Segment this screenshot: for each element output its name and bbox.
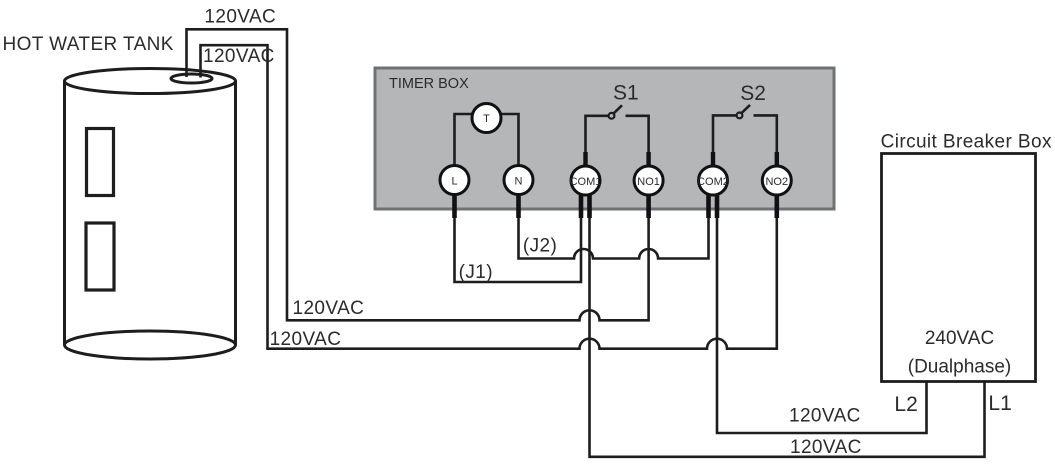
terminal COM2 [697, 166, 729, 195]
timer box label [389, 76, 469, 92]
svg-text:N: N [515, 176, 523, 188]
label L1 [988, 392, 1011, 415]
terminal stub above COM1 [583, 152, 587, 168]
svg-text:L: L [451, 176, 457, 188]
svg-text:NO2: NO2 [765, 176, 788, 188]
heating element upper [87, 129, 114, 196]
terminal stub above NO1 [646, 152, 650, 168]
label Circuit Breaker Box [881, 132, 1052, 153]
svg-text:120VAC: 120VAC [789, 406, 861, 427]
svg-text:COM2: COM2 [697, 176, 729, 188]
label (Dualphase) [908, 357, 1012, 378]
svg-text:120VAC: 120VAC [270, 329, 342, 350]
terminal stub above NO2 [775, 152, 779, 168]
wire jumper J1 L to COM1 [455, 218, 582, 282]
svg-text:Circuit Breaker Box: Circuit Breaker Box [881, 132, 1052, 153]
terminal T [472, 104, 501, 133]
label 120VAC mid lower [270, 329, 342, 350]
wire COM1 to L1 [590, 218, 985, 457]
label S1 [613, 82, 639, 105]
terminal stub above COM2 [711, 152, 715, 168]
label 120VAC top inner [203, 46, 275, 67]
terminal N [504, 166, 533, 195]
terminal stub below NO1 [646, 192, 651, 218]
wire tank terminal to NO1 (120VAC) [187, 29, 649, 320]
svg-text:(Dualphase): (Dualphase) [908, 357, 1012, 378]
wire T bracket right to N [501, 114, 519, 166]
wire COM2 to L2 [717, 218, 927, 433]
switch S2 right wire [754, 115, 777, 166]
label (J2) [523, 236, 557, 257]
switch S1 left wire [586, 116, 609, 166]
label 120VAC top outer [204, 7, 276, 28]
label S2 [740, 82, 766, 105]
svg-text:240VAC: 240VAC [925, 328, 994, 349]
terminal stubs below COM2 [709, 193, 718, 218]
svg-text:120VAC: 120VAC [790, 437, 862, 458]
switch S1 blade [614, 105, 622, 113]
terminal stub below L [452, 192, 457, 218]
terminal NO1 [634, 166, 663, 195]
terminal stub below N [516, 192, 521, 218]
svg-text:S2: S2 [740, 82, 766, 105]
svg-text:120VAC: 120VAC [203, 46, 275, 67]
switch S1 pivot [609, 113, 615, 119]
timer box enclosure [375, 68, 834, 209]
label 120VAC bottom lower [790, 437, 862, 458]
hot water tank body [65, 69, 236, 360]
svg-text:TIMER BOX: TIMER BOX [389, 76, 469, 92]
svg-text:120VAC: 120VAC [204, 7, 276, 28]
label 120VAC bottom upper [789, 406, 861, 427]
svg-text:T: T [483, 113, 490, 125]
terminal stubs below COM1 [581, 193, 590, 218]
label 120VAC mid upper [293, 298, 365, 319]
wire jumper J2 N to COM2 [519, 218, 709, 259]
svg-text:(J1): (J1) [459, 262, 493, 283]
label (J1) [459, 262, 493, 283]
terminal NO2 [762, 166, 791, 195]
switch S2 left wire [713, 115, 737, 166]
label L2 [894, 393, 917, 416]
svg-text:(J2): (J2) [523, 236, 557, 257]
switch S2 pivot [737, 113, 743, 119]
svg-text:NO1: NO1 [637, 176, 660, 188]
switch S2 blade [742, 105, 750, 113]
label 240VAC [925, 328, 994, 349]
heating element lower [86, 223, 114, 290]
circuit breaker box [882, 154, 1036, 382]
svg-text:L2: L2 [894, 393, 917, 416]
svg-text:COM1: COM1 [570, 176, 602, 188]
label HOT WATER TANK [3, 34, 174, 55]
svg-text:HOT WATER TANK: HOT WATER TANK [3, 34, 174, 55]
svg-text:L1: L1 [988, 392, 1011, 415]
terminal L [440, 166, 469, 195]
wire T bracket left to L [455, 114, 474, 166]
tank top opening [171, 74, 212, 83]
switch S1 right wire [626, 116, 649, 166]
wire tank terminal to NO2 (120VAC) [201, 45, 777, 349]
svg-text:120VAC: 120VAC [293, 298, 365, 319]
svg-text:S1: S1 [613, 82, 639, 105]
terminal stub below NO2 [774, 192, 779, 218]
terminal COM1 [570, 166, 602, 195]
